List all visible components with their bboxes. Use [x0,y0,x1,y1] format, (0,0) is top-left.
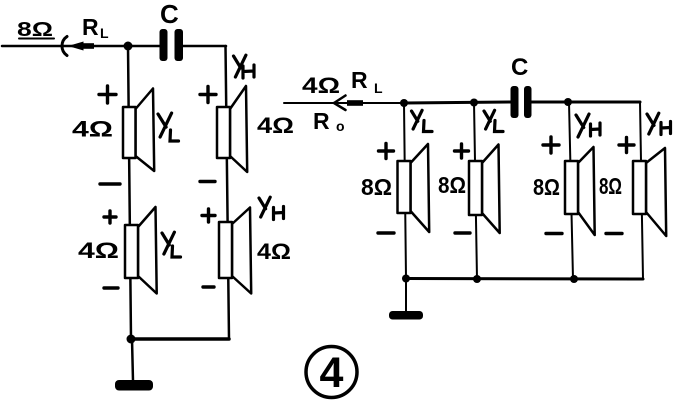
svg-text:L: L [374,80,383,96]
svg-text:R: R [313,108,330,134]
label RL (right) [351,67,383,96]
svg-text:4Ω: 4Ω [257,239,291,264]
svg-text:8Ω: 8Ω [533,174,560,200]
svg-text:C: C [511,54,528,81]
wire: branch 4 / right edge vertical [640,102,643,279]
svg-text:R: R [351,67,368,93]
label Ro [313,108,345,134]
label + (b4) [619,138,634,153]
wire: left input lead [2,45,128,48]
node: bottom junction C [570,275,578,283]
node: bottom junction B [473,275,481,283]
wire: top bus right of capacitor [531,101,640,104]
svg-text:R: R [82,14,99,40]
label minus (YH1) [200,180,215,183]
svg-text:4Ω: 4Ω [78,238,119,263]
node: top junction B [470,99,478,107]
label minus (YH2) [203,285,214,288]
speaker YL2 [125,207,157,294]
node: bottom junction A [402,275,410,283]
figure number 4 (circled) [306,347,357,398]
label + (YL2) [104,211,116,223]
svg-text:C: C [160,0,179,29]
speaker YH1 [217,86,247,172]
wire: bottom bus [406,277,643,281]
wire: branch 2 vertical [474,102,477,279]
speaker YL-b2 [469,145,500,234]
node: top-left junction [124,42,133,51]
node: top junction A [400,99,408,107]
speaker YL1 [123,89,154,172]
svg-text:4Ω: 4Ω [72,117,113,142]
label minus (b2) [455,231,470,234]
svg-text:4: 4 [320,349,344,397]
label + (YL1) [99,86,116,103]
wire: ground stem [132,339,133,381]
label RL [82,14,109,41]
label minus (YL2) [104,286,118,289]
svg-text:L: L [100,25,109,41]
ground (left circuit) [115,380,153,391]
label minus (YL1) [100,182,120,185]
node: top junction C [564,98,572,106]
wire: branch 1 vertical [404,103,406,278]
label + (b2) [455,144,469,158]
capacitor C plates [160,29,184,61]
label + (YH2) [202,209,215,222]
label YL (speaker 2) [162,232,181,257]
arrow RL (right): arrowhead [334,96,363,111]
arrow RL: arrowhead [68,42,94,51]
label + (YH1) [200,87,216,103]
speaker YL-b1 [398,144,430,232]
svg-text:4Ω: 4Ω [257,113,294,138]
label YH (branch 3) [576,114,600,137]
wire: YL branch vertical [128,46,131,339]
wire: bottom tie [131,337,229,341]
label minus (b3) [546,232,562,235]
svg-text:8Ω: 8Ω [438,172,466,198]
capacitor C plates (right) [511,86,532,118]
label YL (speaker 1) [158,113,179,141]
svg-text:8Ω: 8Ω [361,174,392,200]
label + (b3) [543,137,559,153]
label YH (top) [234,55,255,78]
speaker YH-b4 [633,148,666,236]
wire: junction to capacitor [128,45,160,48]
speaker YH2 [219,208,251,294]
speaker YH-b3 [565,147,595,235]
ground (right circuit) [389,311,423,320]
wire: top bus left of capacitor [404,102,511,103]
svg-text:4Ω: 4Ω [302,73,340,98]
svg-text:o: o [336,118,345,134]
wire: capacitor to top-right corner [183,45,226,48]
label YH (speaker 2) [259,197,284,219]
label 8-ohm source [17,19,54,41]
wire: right circuit input lead [284,102,404,104]
label minus (b4) [606,232,622,235]
label YL (branch 2) [484,110,503,131]
label YH (branch 4) [647,113,671,134]
svg-text:8Ω: 8Ω [599,173,622,199]
node: bottom junction [127,335,136,344]
wire: branch 3 vertical [569,102,573,279]
wire: ground stem (right) [405,279,407,311]
wire: YH branch vertical [226,46,230,339]
label minus (b1) [378,231,394,234]
label + (b1) [379,144,394,159]
arrow RL: arc [62,37,67,56]
label YL (branch 1) [412,110,433,131]
